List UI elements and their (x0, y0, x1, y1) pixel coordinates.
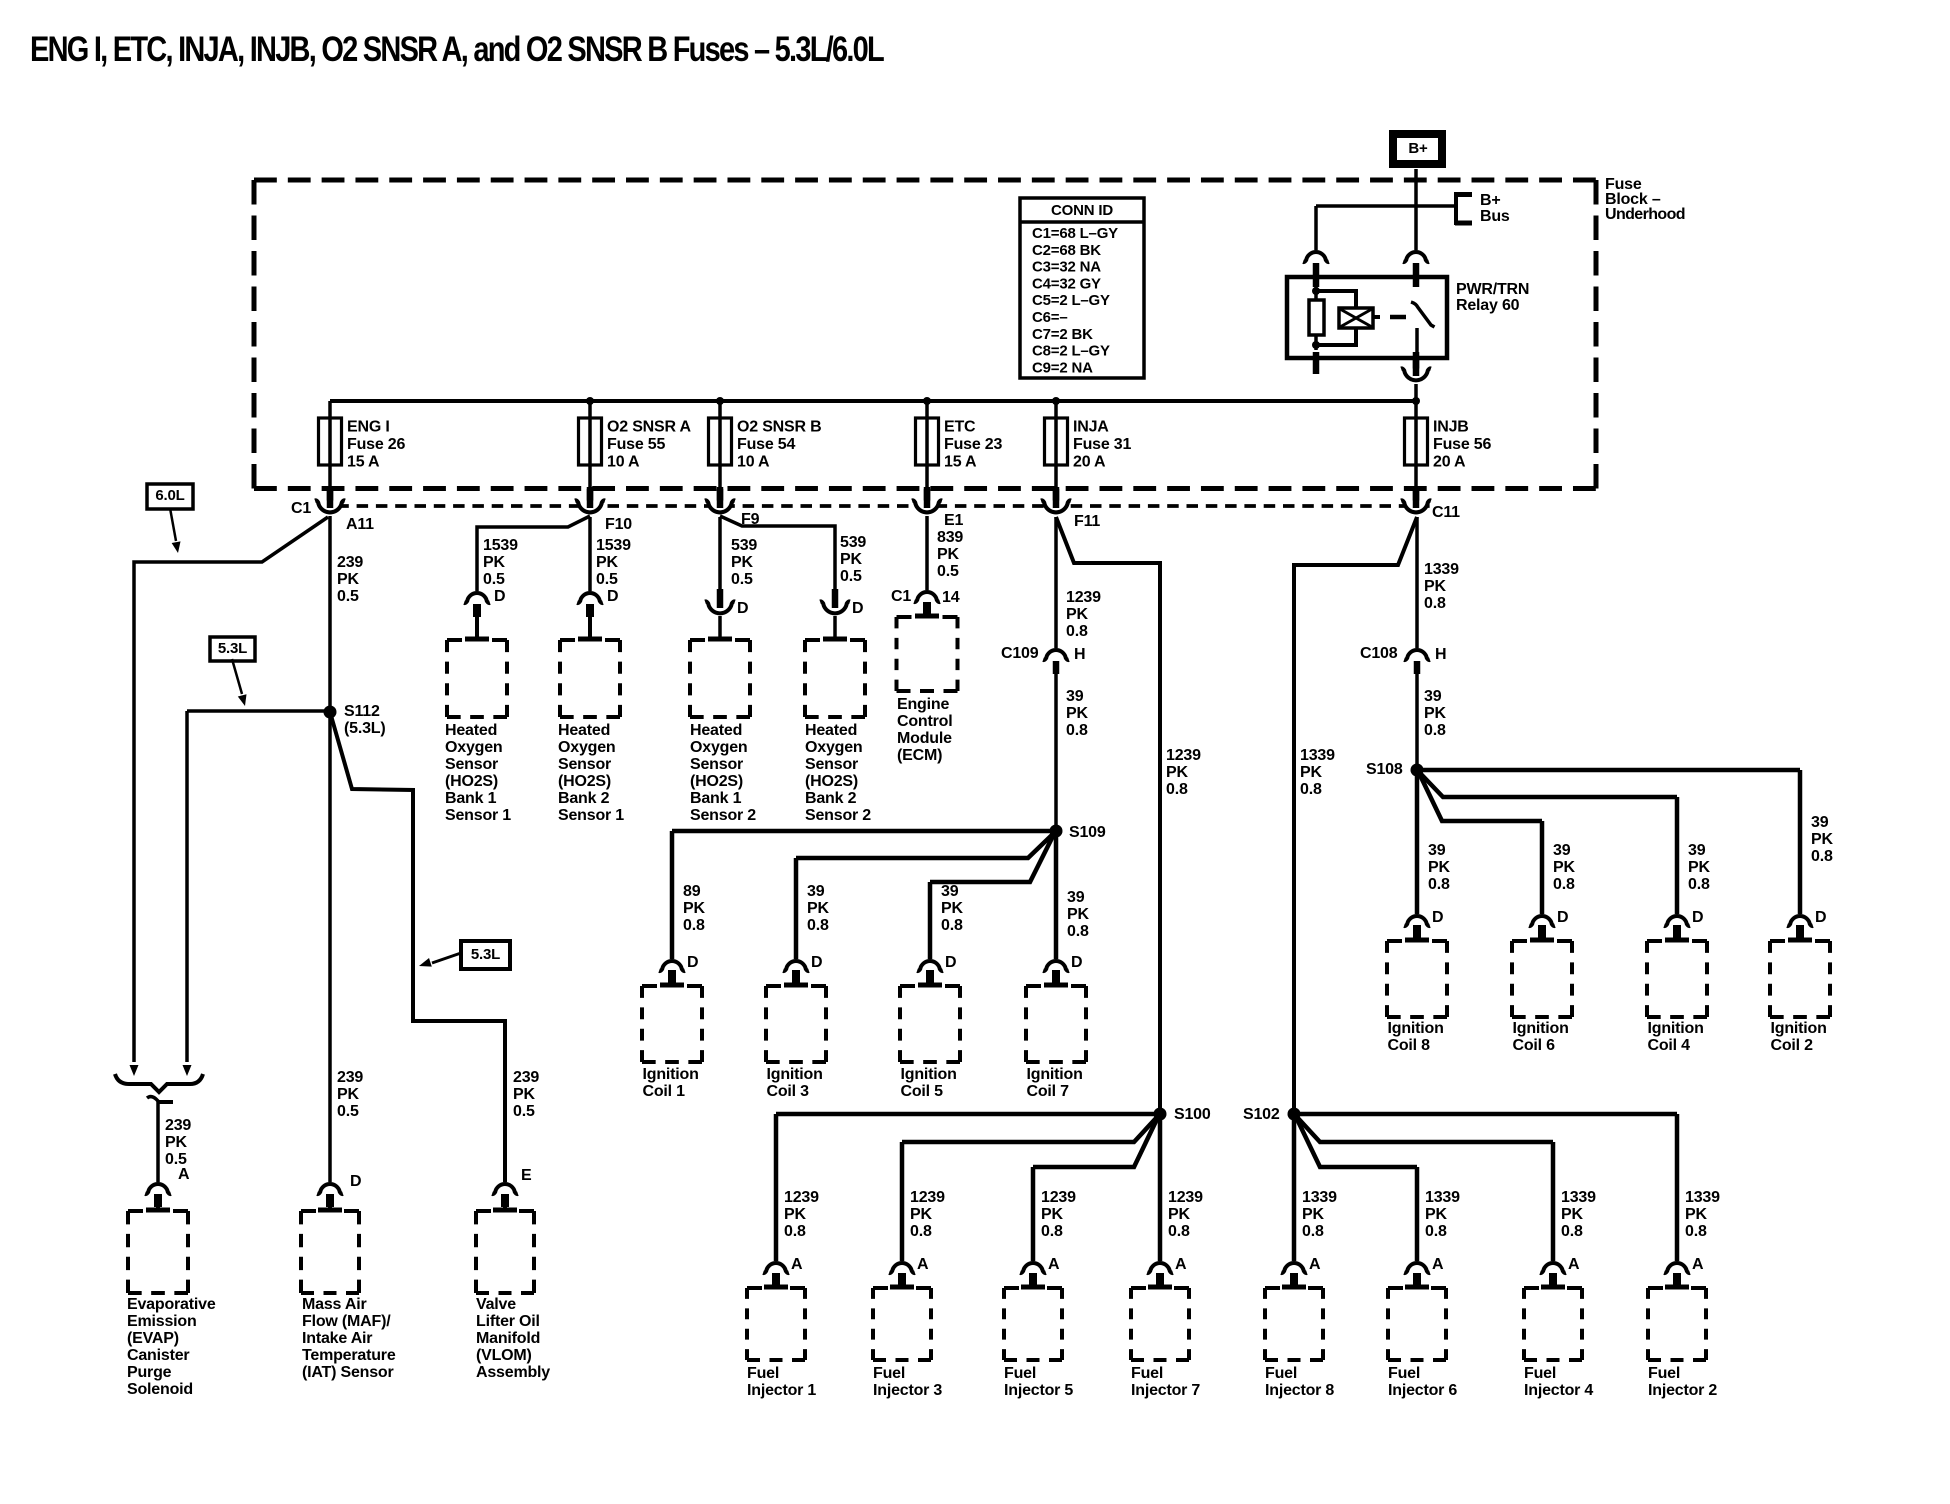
svg-text:Fuel: Fuel (747, 1365, 779, 1382)
svg-text:0.5: 0.5 (483, 571, 505, 588)
svg-text:1339: 1339 (1425, 1189, 1460, 1206)
svg-text:PK: PK (513, 1086, 535, 1103)
svg-text:Coil 6: Coil 6 (1513, 1037, 1556, 1054)
svg-text:PK: PK (483, 554, 505, 571)
svg-text:Oxygen: Oxygen (690, 739, 748, 756)
svg-text:Heated: Heated (690, 722, 742, 739)
svg-text:Assembly: Assembly (476, 1364, 550, 1381)
svg-text:14: 14 (942, 589, 960, 606)
svg-text:C109: C109 (1001, 645, 1039, 662)
svg-text:PK: PK (1168, 1206, 1190, 1223)
svg-text:PK: PK (1067, 906, 1089, 923)
svg-text:Ignition: Ignition (901, 1066, 957, 1083)
svg-text:D: D (852, 600, 863, 617)
svg-text:PK: PK (784, 1206, 806, 1223)
svg-text:PK: PK (683, 900, 705, 917)
svg-text:PK: PK (910, 1206, 932, 1223)
svg-text:Lifter Oil: Lifter Oil (476, 1313, 540, 1330)
svg-text:Heated: Heated (805, 722, 857, 739)
svg-text:A: A (1432, 1256, 1444, 1273)
svg-text:Bus: Bus (1480, 208, 1510, 225)
svg-text:Injector 2: Injector 2 (1648, 1382, 1717, 1399)
svg-text:0.5: 0.5 (513, 1103, 535, 1120)
svg-text:Injector 1: Injector 1 (747, 1382, 816, 1399)
svg-text:Ignition: Ignition (1513, 1020, 1569, 1037)
svg-text:0.5: 0.5 (840, 568, 862, 585)
svg-text:C1: C1 (291, 500, 311, 517)
svg-text:0.8: 0.8 (1811, 848, 1833, 865)
svg-text:C108: C108 (1360, 645, 1398, 662)
svg-text:Fuel: Fuel (1004, 1365, 1036, 1382)
svg-text:Engine: Engine (897, 696, 949, 713)
svg-text:S108: S108 (1366, 761, 1403, 778)
svg-text:Coil 3: Coil 3 (767, 1083, 810, 1100)
svg-text:Solenoid: Solenoid (127, 1381, 193, 1398)
svg-text:1339: 1339 (1302, 1189, 1337, 1206)
svg-text:0.5: 0.5 (337, 1103, 359, 1120)
svg-text:(ECM): (ECM) (897, 747, 942, 764)
svg-text:A: A (1048, 1256, 1060, 1273)
svg-text:Coil 2: Coil 2 (1771, 1037, 1814, 1054)
svg-text:Oxygen: Oxygen (805, 739, 863, 756)
svg-text:0.8: 0.8 (1166, 781, 1188, 798)
svg-text:D: D (687, 954, 698, 971)
svg-text:1339: 1339 (1300, 747, 1335, 764)
svg-text:PK: PK (1688, 859, 1710, 876)
svg-text:Fuse 26: Fuse 26 (347, 436, 405, 453)
svg-text:539: 539 (731, 537, 757, 554)
svg-text:39: 39 (1428, 842, 1446, 859)
svg-text:Ignition: Ignition (1388, 1020, 1444, 1037)
svg-text:0.8: 0.8 (1688, 876, 1710, 893)
svg-text:0.8: 0.8 (807, 917, 829, 934)
svg-text:Ignition: Ignition (767, 1066, 823, 1083)
svg-text:39: 39 (1067, 889, 1085, 906)
svg-text:ETC: ETC (944, 419, 976, 436)
svg-text:Oxygen: Oxygen (445, 739, 503, 756)
svg-text:Fuse 55: Fuse 55 (607, 436, 665, 453)
svg-text:0.8: 0.8 (1561, 1223, 1583, 1240)
svg-text:PK: PK (731, 554, 753, 571)
svg-text:Sensor: Sensor (690, 756, 743, 773)
svg-text:D: D (1692, 909, 1703, 926)
svg-text:539: 539 (840, 534, 866, 551)
svg-text:Fuse 56: Fuse 56 (1433, 436, 1491, 453)
svg-text:15 A: 15 A (944, 454, 977, 471)
svg-text:PK: PK (1553, 859, 1575, 876)
svg-text:B+: B+ (1480, 192, 1501, 209)
svg-text:S100: S100 (1174, 1106, 1211, 1123)
svg-text:(VLOM): (VLOM) (476, 1347, 532, 1364)
svg-text:1239: 1239 (910, 1189, 945, 1206)
svg-text:Sensor: Sensor (558, 756, 611, 773)
svg-text:0.8: 0.8 (1685, 1223, 1707, 1240)
svg-text:Fuel: Fuel (1524, 1365, 1556, 1382)
svg-text:D: D (1071, 954, 1082, 971)
svg-text:PK: PK (1428, 859, 1450, 876)
svg-text:C2=68 BK: C2=68 BK (1032, 242, 1101, 259)
svg-text:PK: PK (941, 900, 963, 917)
svg-text:Mass Air: Mass Air (302, 1296, 367, 1313)
svg-text:Module: Module (897, 730, 952, 747)
svg-text:239: 239 (165, 1117, 191, 1134)
svg-text:A: A (1568, 1256, 1580, 1273)
svg-text:Injector 7: Injector 7 (1131, 1382, 1200, 1399)
svg-text:Bank 1: Bank 1 (445, 790, 497, 807)
svg-text:ENG I: ENG I (347, 419, 390, 436)
svg-text:0.8: 0.8 (784, 1223, 806, 1240)
svg-text:E: E (521, 1167, 532, 1184)
svg-text:Emission: Emission (127, 1313, 197, 1330)
svg-text:D: D (607, 588, 618, 605)
svg-text:0.8: 0.8 (1553, 876, 1575, 893)
svg-text:Coil 4: Coil 4 (1648, 1037, 1691, 1054)
svg-text:C3=32 NA: C3=32 NA (1032, 259, 1101, 276)
svg-text:Bank 2: Bank 2 (805, 790, 857, 807)
svg-text:C9=2 NA: C9=2 NA (1032, 359, 1093, 376)
svg-text:D: D (350, 1173, 361, 1190)
svg-text:D: D (1815, 909, 1826, 926)
svg-text:Bank 2: Bank 2 (558, 790, 610, 807)
svg-text:Coil 5: Coil 5 (901, 1083, 944, 1100)
svg-text:PK: PK (1424, 578, 1446, 595)
svg-text:39: 39 (1553, 842, 1571, 859)
svg-text:Coil 8: Coil 8 (1388, 1037, 1431, 1054)
svg-text:10 A: 10 A (737, 454, 770, 471)
svg-text:A: A (1309, 1256, 1321, 1273)
svg-text:1239: 1239 (1166, 747, 1201, 764)
svg-text:1239: 1239 (1041, 1189, 1076, 1206)
svg-text:PK: PK (1066, 705, 1088, 722)
svg-text:Evaporative: Evaporative (127, 1296, 216, 1313)
svg-text:S102: S102 (1243, 1106, 1280, 1123)
svg-text:Canister: Canister (127, 1347, 189, 1364)
svg-text:1239: 1239 (1066, 589, 1101, 606)
svg-text:(HO2S): (HO2S) (445, 773, 498, 790)
svg-text:Fuse 54: Fuse 54 (737, 436, 795, 453)
svg-text:1339: 1339 (1685, 1189, 1720, 1206)
svg-text:0.8: 0.8 (683, 917, 705, 934)
svg-text:O2 SNSR B: O2 SNSR B (737, 419, 821, 436)
svg-text:PK: PK (1066, 606, 1088, 623)
svg-text:Coil 1: Coil 1 (643, 1083, 686, 1100)
svg-text:C1=68 L–GY: C1=68 L–GY (1032, 225, 1118, 242)
svg-text:Flow (MAF)/: Flow (MAF)/ (302, 1313, 391, 1330)
svg-text:0.5: 0.5 (937, 563, 959, 580)
svg-text:PK: PK (1424, 705, 1446, 722)
svg-text:Manifold: Manifold (476, 1330, 540, 1347)
svg-text:Fuel: Fuel (1265, 1365, 1297, 1382)
svg-text:Purge: Purge (127, 1364, 172, 1381)
svg-text:0.8: 0.8 (1428, 876, 1450, 893)
svg-text:PK: PK (840, 551, 862, 568)
svg-text:Fuel: Fuel (1388, 1365, 1420, 1382)
svg-text:Sensor 2: Sensor 2 (805, 807, 871, 824)
svg-text:PK: PK (337, 571, 359, 588)
svg-text:89: 89 (683, 883, 701, 900)
svg-text:1539: 1539 (596, 537, 631, 554)
svg-text:C6=–: C6=– (1032, 309, 1067, 326)
svg-text:Intake Air: Intake Air (302, 1330, 372, 1347)
svg-text:10 A: 10 A (607, 454, 640, 471)
svg-text:0.8: 0.8 (1041, 1223, 1063, 1240)
svg-text:B+: B+ (1408, 140, 1428, 157)
svg-text:1339: 1339 (1561, 1189, 1596, 1206)
svg-text:Heated: Heated (558, 722, 610, 739)
svg-text:0.8: 0.8 (1168, 1223, 1190, 1240)
svg-text:(HO2S): (HO2S) (558, 773, 611, 790)
svg-text:O2 SNSR A: O2 SNSR A (607, 419, 691, 436)
svg-text:A: A (1692, 1256, 1704, 1273)
svg-text:PK: PK (596, 554, 618, 571)
svg-text:39: 39 (1688, 842, 1706, 859)
svg-text:Injector 8: Injector 8 (1265, 1382, 1334, 1399)
svg-text:Fuse 23: Fuse 23 (944, 436, 1002, 453)
svg-text:Temperature: Temperature (302, 1347, 396, 1364)
svg-text:A: A (917, 1256, 929, 1273)
svg-text:239: 239 (513, 1069, 539, 1086)
svg-text:0.8: 0.8 (941, 917, 963, 934)
svg-text:C7=2 BK: C7=2 BK (1032, 326, 1093, 343)
svg-text:PK: PK (1425, 1206, 1447, 1223)
svg-text:Sensor 1: Sensor 1 (445, 807, 511, 824)
svg-text:15 A: 15 A (347, 454, 380, 471)
svg-text:(HO2S): (HO2S) (805, 773, 858, 790)
svg-text:0.8: 0.8 (1300, 781, 1322, 798)
svg-text:Sensor: Sensor (805, 756, 858, 773)
svg-text:A11: A11 (346, 516, 374, 533)
svg-text:Valve: Valve (476, 1296, 516, 1313)
svg-text:Fuel: Fuel (1131, 1365, 1163, 1382)
svg-text:(HO2S): (HO2S) (690, 773, 743, 790)
svg-text:Ignition: Ignition (643, 1066, 699, 1083)
svg-text:D: D (945, 954, 956, 971)
svg-text:Control: Control (897, 713, 952, 730)
svg-text:H: H (1074, 646, 1085, 663)
svg-text:D: D (1557, 909, 1568, 926)
svg-text:1239: 1239 (1168, 1189, 1203, 1206)
svg-text:F10: F10 (605, 516, 632, 533)
svg-text:F11: F11 (1074, 513, 1100, 530)
svg-text:PK: PK (1300, 764, 1322, 781)
svg-text:PK: PK (1811, 831, 1833, 848)
svg-text:0.8: 0.8 (1424, 722, 1446, 739)
svg-text:Sensor: Sensor (445, 756, 498, 773)
svg-text:PK: PK (1685, 1206, 1707, 1223)
svg-text:Injector 3: Injector 3 (873, 1382, 942, 1399)
svg-text:1539: 1539 (483, 537, 518, 554)
svg-text:D: D (494, 588, 505, 605)
svg-text:C4=32 GY: C4=32 GY (1032, 275, 1101, 292)
svg-text:239: 239 (337, 554, 363, 571)
svg-text:5.3L: 5.3L (471, 946, 500, 963)
svg-text:(5.3L): (5.3L) (344, 720, 385, 737)
svg-text:20 A: 20 A (1433, 454, 1466, 471)
svg-text:(IAT) Sensor: (IAT) Sensor (302, 1364, 394, 1381)
svg-text:Fuse 31: Fuse 31 (1073, 436, 1131, 453)
svg-text:Oxygen: Oxygen (558, 739, 616, 756)
svg-text:Fuel: Fuel (1648, 1365, 1680, 1382)
svg-text:PK: PK (1561, 1206, 1583, 1223)
svg-text:839: 839 (937, 529, 963, 546)
svg-text:0.8: 0.8 (1425, 1223, 1447, 1240)
svg-text:C1: C1 (891, 588, 911, 605)
svg-text:C11: C11 (1432, 504, 1460, 521)
svg-text:S112: S112 (344, 703, 380, 720)
svg-text:39: 39 (941, 883, 959, 900)
svg-text:39: 39 (807, 883, 825, 900)
svg-text:A: A (791, 1256, 803, 1273)
svg-text:PK: PK (807, 900, 829, 917)
svg-text:ENG I, ETC, INJA, INJB, O2 SNS: ENG I, ETC, INJA, INJB, O2 SNSR A, and O… (30, 29, 884, 68)
svg-text:PK: PK (1166, 764, 1188, 781)
svg-text:239: 239 (337, 1069, 363, 1086)
svg-text:Injector 4: Injector 4 (1524, 1382, 1593, 1399)
svg-text:39: 39 (1811, 814, 1829, 831)
svg-text:E1: E1 (944, 512, 963, 529)
svg-text:0.5: 0.5 (731, 571, 753, 588)
svg-text:Fuel: Fuel (873, 1365, 905, 1382)
svg-text:0.8: 0.8 (1302, 1223, 1324, 1240)
svg-text:CONN ID: CONN ID (1051, 202, 1113, 219)
svg-text:Relay 60: Relay 60 (1456, 297, 1520, 314)
svg-text:(EVAP): (EVAP) (127, 1330, 179, 1347)
svg-text:PK: PK (165, 1134, 187, 1151)
svg-text:D: D (737, 600, 748, 617)
svg-text:A: A (1175, 1256, 1187, 1273)
svg-text:0.8: 0.8 (910, 1223, 932, 1240)
svg-text:Heated: Heated (445, 722, 497, 739)
svg-text:6.0L: 6.0L (155, 487, 184, 504)
svg-text:Injector 5: Injector 5 (1004, 1382, 1073, 1399)
svg-text:PK: PK (937, 546, 959, 563)
svg-text:0.5: 0.5 (596, 571, 618, 588)
svg-text:0.8: 0.8 (1067, 923, 1089, 940)
svg-text:0.8: 0.8 (1066, 722, 1088, 739)
svg-text:Coil 7: Coil 7 (1027, 1083, 1070, 1100)
svg-text:C5=2 L–GY: C5=2 L–GY (1032, 292, 1110, 309)
svg-text:Ignition: Ignition (1771, 1020, 1827, 1037)
svg-text:0.5: 0.5 (337, 588, 359, 605)
svg-text:1239: 1239 (784, 1189, 819, 1206)
svg-text:0.8: 0.8 (1066, 623, 1088, 640)
svg-text:Ignition: Ignition (1027, 1066, 1083, 1083)
svg-text:Sensor 2: Sensor 2 (690, 807, 756, 824)
svg-text:INJA: INJA (1073, 419, 1109, 436)
svg-text:PK: PK (337, 1086, 359, 1103)
svg-text:INJB: INJB (1433, 419, 1469, 436)
svg-text:Underhood: Underhood (1605, 206, 1685, 223)
svg-text:D: D (1432, 909, 1443, 926)
svg-text:20 A: 20 A (1073, 454, 1106, 471)
svg-text:Sensor 1: Sensor 1 (558, 807, 624, 824)
svg-text:D: D (811, 954, 822, 971)
svg-text:5.3L: 5.3L (218, 640, 247, 657)
svg-text:1339: 1339 (1424, 561, 1459, 578)
svg-text:Ignition: Ignition (1648, 1020, 1704, 1037)
svg-text:H: H (1435, 646, 1446, 663)
svg-text:0.8: 0.8 (1424, 595, 1446, 612)
svg-text:39: 39 (1424, 688, 1442, 705)
svg-text:C8=2 L–GY: C8=2 L–GY (1032, 343, 1110, 360)
svg-text:A: A (178, 1166, 190, 1183)
svg-text:S109: S109 (1069, 824, 1106, 841)
svg-text:Injector 6: Injector 6 (1388, 1382, 1457, 1399)
svg-text:PWR/TRN: PWR/TRN (1456, 281, 1529, 298)
svg-text:PK: PK (1302, 1206, 1324, 1223)
svg-text:Bank 1: Bank 1 (690, 790, 742, 807)
svg-text:39: 39 (1066, 688, 1084, 705)
svg-text:PK: PK (1041, 1206, 1063, 1223)
